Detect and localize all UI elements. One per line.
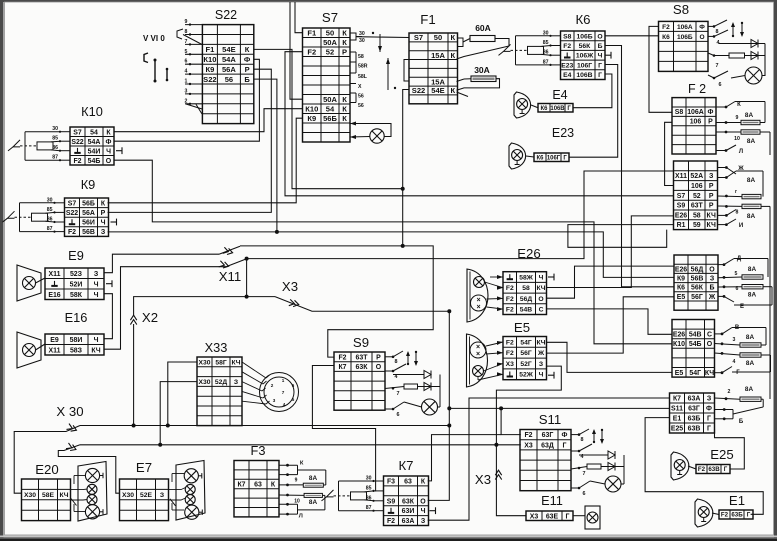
svg-text:106Г: 106Г	[547, 155, 561, 161]
fuse F3 8A-1	[303, 483, 323, 487]
fuse 60A	[470, 36, 495, 42]
svg-text:К6: К6	[575, 12, 590, 27]
svg-text:4: 4	[581, 454, 584, 460]
svg-text:86: 86	[543, 50, 549, 56]
svg-text:Х11: Х11	[49, 347, 61, 354]
svg-text:Е23: Е23	[561, 62, 573, 69]
svg-text:Р: Р	[708, 119, 713, 126]
lamp E9 symbol	[17, 265, 41, 301]
junction X11-X2	[245, 257, 249, 261]
wire E1 to F2	[645, 418, 763, 515]
svg-text:106: 106	[690, 119, 702, 126]
svg-text:К10: К10	[673, 341, 685, 348]
S7 pilot lamp	[370, 129, 384, 143]
E26 bulb wires	[485, 277, 504, 309]
switch S11	[520, 430, 571, 491]
svg-text:К6: К6	[677, 285, 685, 292]
svg-text:54: 54	[326, 105, 335, 114]
svg-text:3: 3	[733, 337, 736, 343]
svg-text:Л: Л	[739, 149, 743, 155]
svg-text:F 2: F 2	[688, 82, 706, 96]
svg-text:Р: Р	[342, 48, 347, 57]
wire S8 d2	[745, 55, 766, 57]
svg-text:4: 4	[283, 402, 286, 407]
svg-text:8: 8	[581, 437, 584, 443]
svg-text:5: 5	[185, 49, 188, 55]
lamp E16 symbol	[17, 332, 41, 368]
svg-text:F2: F2	[73, 158, 81, 165]
junction 54E riser	[401, 187, 405, 191]
svg-text:Б: Б	[598, 43, 603, 50]
wire X30 to E20	[14, 426, 80, 494]
E26 small bulb	[474, 277, 485, 288]
63 group right mech	[715, 398, 764, 419]
wire X33 58G down	[168, 362, 197, 426]
svg-text:52: 52	[693, 193, 701, 200]
svg-text:Ф: Ф	[244, 55, 251, 64]
svg-text:Е: Е	[740, 304, 744, 310]
svg-text:63К: 63К	[356, 364, 369, 371]
svg-text:Е4: Е4	[563, 72, 572, 79]
svg-text:О: О	[709, 266, 715, 273]
ground K10	[116, 147, 122, 154]
svg-text:54Е: 54Е	[431, 86, 444, 95]
wire S8 to lamp	[731, 76, 745, 79]
svg-text:Е5: Е5	[677, 294, 686, 301]
lamp E25	[671, 452, 689, 480]
svg-text:КЧ: КЧ	[536, 339, 545, 346]
svg-text:К6: К6	[537, 155, 545, 161]
svg-text:F2: F2	[506, 285, 514, 292]
svg-text:106Ж: 106Ж	[576, 53, 594, 60]
relay K7 symbol	[322, 481, 384, 511]
svg-text:Г: Г	[598, 62, 602, 69]
svg-text:З: З	[709, 173, 714, 180]
fuse F2-10 8A	[741, 130, 760, 134]
svg-text:106Б: 106Б	[677, 34, 693, 41]
lamp E5 connections	[503, 337, 547, 380]
svg-text:50: 50	[434, 33, 442, 42]
junction 54E on line A	[401, 244, 405, 248]
wire X3 diagonal	[275, 297, 449, 312]
svg-text:Е25: Е25	[710, 447, 733, 462]
svg-text:F2: F2	[338, 354, 346, 361]
svg-text:58: 58	[522, 285, 530, 292]
svg-text:56А: 56А	[82, 210, 95, 217]
E7 bulb 4	[185, 505, 199, 519]
wire S7 54 to K10	[114, 109, 303, 132]
E5 bulb wires	[478, 342, 503, 380]
56 group right mech	[718, 259, 772, 306]
svg-text:Е9: Е9	[68, 248, 84, 263]
S11 resistor	[587, 464, 601, 469]
wire F1 54E riser	[403, 90, 409, 246]
S22 pin 3 stub	[185, 93, 202, 95]
svg-text:15А: 15А	[431, 51, 445, 60]
ground E26	[548, 274, 554, 281]
svg-text:Б: Б	[710, 285, 715, 292]
wire E25 to F2	[715, 429, 745, 469]
svg-text:Г: Г	[566, 513, 570, 520]
svg-text:Х3: Х3	[530, 513, 539, 520]
wire 60A loop back	[457, 39, 510, 60]
lamp E23 bulb	[512, 150, 523, 161]
svg-text:Х33: Х33	[205, 340, 228, 355]
svg-text:30А: 30А	[474, 65, 490, 75]
svg-text:56К: 56К	[579, 43, 592, 50]
svg-text:56В: 56В	[82, 229, 95, 236]
wire E4 lamp to label	[531, 105, 538, 108]
svg-text:Е16: Е16	[48, 292, 60, 299]
svg-text:30: 30	[359, 31, 365, 37]
wire S22 54E	[254, 49, 403, 188]
svg-text:63Е: 63Е	[546, 513, 559, 520]
fuse F2 8A third	[742, 194, 761, 198]
svg-text:56А: 56А	[222, 65, 236, 74]
svg-text:8А: 8А	[746, 334, 755, 341]
ground K9	[111, 219, 117, 226]
X33 wires to round connector	[242, 362, 270, 404]
svg-text:Р: Р	[709, 183, 714, 190]
lamp E1	[695, 499, 713, 527]
svg-text:Ч: Ч	[598, 53, 603, 60]
svg-text:С: С	[707, 331, 712, 338]
svg-text:К7: К7	[338, 364, 346, 371]
wire E26 54V to F2-54	[547, 309, 673, 334]
svg-text:56В: 56В	[691, 276, 704, 283]
F1 right bracket to 60A fuse	[457, 38, 470, 47]
wire S11 pin6	[590, 481, 605, 484]
wire E5 54G to F2-54	[547, 342, 673, 372]
svg-text:50А: 50А	[323, 38, 337, 47]
svg-text:63Б: 63Б	[688, 416, 701, 423]
svg-text:3: 3	[273, 398, 276, 403]
svg-text:КЧ: КЧ	[707, 212, 716, 219]
wire S22 54A to K10	[114, 59, 259, 141]
F2 block 54 group	[672, 320, 715, 378]
svg-text:Е5: Е5	[675, 370, 684, 377]
svg-text:8: 8	[185, 29, 188, 35]
S22 pin 8 stub	[185, 34, 202, 36]
svg-text:2: 2	[271, 383, 274, 388]
svg-text:Ч: Ч	[94, 292, 99, 299]
wire K7 63A to F2	[428, 398, 670, 520]
lamp E9 connections	[45, 268, 104, 300]
svg-text:6: 6	[292, 383, 295, 388]
svg-text:54А: 54А	[222, 55, 236, 64]
wire to X2	[134, 297, 275, 316]
F2 upper right mech	[716, 102, 770, 156]
svg-text:63И: 63И	[402, 508, 415, 515]
svg-text:58L: 58L	[358, 74, 368, 80]
svg-text:7: 7	[397, 391, 400, 397]
svg-text:К: К	[300, 461, 304, 467]
svg-text:Е11: Е11	[541, 493, 563, 508]
junction X2 on X30 line	[132, 424, 136, 428]
svg-text:106В: 106В	[576, 72, 592, 79]
svg-text:S7: S7	[73, 129, 82, 136]
svg-text:54В: 54В	[689, 331, 702, 338]
wire S7 50A up	[290, 2, 303, 99]
svg-text:63Г: 63Г	[688, 406, 700, 413]
svg-text:8А: 8А	[748, 292, 757, 299]
svg-text:З: З	[101, 229, 106, 236]
svg-text:58Е: 58Е	[42, 492, 55, 499]
svg-text:87: 87	[47, 226, 53, 232]
svg-text:1: 1	[185, 79, 188, 85]
svg-text:Ч: Ч	[421, 508, 426, 515]
lamp E4 label	[538, 104, 573, 113]
svg-text:5: 5	[292, 397, 295, 402]
svg-text:К: К	[737, 102, 741, 108]
svg-text:К: К	[342, 38, 347, 47]
svg-text:60А: 60А	[475, 23, 491, 33]
E7 internal wires	[169, 474, 186, 511]
svg-text:КЧ: КЧ	[536, 285, 545, 292]
svg-text:106Б: 106Б	[576, 33, 592, 40]
svg-text:54: 54	[90, 129, 98, 136]
fuse 8A 63	[740, 397, 761, 401]
svg-text:F1: F1	[420, 12, 435, 27]
wire S7 lamp return	[350, 136, 370, 139]
svg-text:F2: F2	[307, 48, 316, 57]
svg-text:6: 6	[719, 82, 722, 88]
junction S11 feed	[499, 406, 503, 410]
svg-text:V VI 0: V VI 0	[143, 34, 165, 43]
switch S8	[659, 21, 709, 71]
junction X2-X3	[245, 295, 249, 299]
E20 internal wires	[71, 476, 88, 512]
wire K9 56V to F2-56 block	[108, 232, 675, 278]
wire X30 line right segment	[80, 425, 449, 427]
E7 bulb 2	[185, 484, 195, 494]
E7 bulb 3	[185, 495, 195, 505]
diode S9-2	[424, 383, 431, 391]
svg-text:Ф: Ф	[562, 432, 568, 439]
E7 cluster housing	[176, 461, 205, 521]
svg-text:56Б: 56Б	[82, 200, 95, 207]
F1 30A branch	[457, 79, 472, 97]
54 group right mech	[715, 328, 771, 373]
svg-text:Е9: Е9	[50, 337, 59, 344]
svg-text:КЧ: КЧ	[707, 222, 716, 229]
svg-text:63Д: 63Д	[541, 442, 554, 449]
svg-text:4: 4	[185, 69, 188, 75]
svg-text:Е25: Е25	[671, 426, 683, 433]
svg-text:Р: Р	[101, 210, 106, 217]
svg-text:И: И	[739, 223, 743, 229]
connector X11 lower	[219, 261, 229, 268]
svg-text:8А: 8А	[747, 138, 756, 145]
svg-text:Ч: Ч	[101, 220, 106, 227]
svg-text:58Г: 58Г	[215, 359, 227, 366]
svg-text:56: 56	[358, 94, 364, 100]
svg-text:56Б: 56Б	[323, 114, 337, 123]
svg-text:Х3: Х3	[282, 279, 298, 294]
svg-text:63Г: 63Г	[542, 432, 554, 439]
svg-text:КЧ: КЧ	[91, 347, 100, 354]
svg-text:Д: Д	[737, 256, 742, 262]
svg-text:6: 6	[397, 412, 400, 418]
svg-text:85: 85	[543, 40, 549, 46]
lamp E25 bulb	[674, 460, 685, 471]
svg-text:З: З	[710, 276, 715, 283]
E20 bulb 4	[85, 505, 99, 519]
fuse block F2 upper	[672, 98, 716, 154]
svg-text:9: 9	[295, 478, 298, 484]
svg-text:S22: S22	[203, 75, 216, 84]
junction S22-56	[275, 230, 279, 234]
svg-text:К: К	[450, 33, 455, 42]
E26 big bulb	[471, 295, 487, 311]
svg-text:Ж: Ж	[537, 350, 545, 357]
svg-text:К10: К10	[203, 55, 216, 64]
S22 pin 2 stub	[185, 103, 202, 105]
lamp in S9	[422, 399, 438, 415]
svg-text:F2: F2	[68, 229, 76, 236]
svg-text:О: О	[597, 33, 602, 40]
connector X3 lower	[495, 470, 501, 479]
svg-text:58Ж: 58Ж	[519, 275, 534, 282]
svg-text:59: 59	[693, 222, 701, 229]
lamp E4	[514, 92, 531, 118]
ground K7	[430, 507, 436, 514]
svg-text:63А: 63А	[402, 518, 415, 525]
E20 bulb 2	[87, 484, 97, 494]
svg-text:Х30: Х30	[198, 359, 210, 366]
E20 bulb 1	[85, 468, 99, 482]
wire E16 bulb	[36, 344, 46, 350]
svg-text:63: 63	[254, 482, 262, 489]
relay K9 symbol	[3, 203, 65, 232]
wire E23 to K6	[569, 65, 618, 158]
diode S9-1	[424, 371, 431, 379]
svg-text:58З: 58З	[70, 347, 83, 354]
svg-text:7: 7	[583, 471, 586, 477]
svg-text:×: ×	[476, 304, 480, 311]
lamp E9 bulb	[23, 277, 36, 290]
F2 lower right mech	[718, 168, 771, 400]
svg-text:86: 86	[52, 145, 58, 151]
S22 pin 6 stub	[185, 63, 202, 65]
svg-text:9: 9	[736, 115, 739, 121]
svg-text:8А: 8А	[748, 266, 757, 273]
svg-text:К9: К9	[307, 114, 316, 123]
svg-text:S22: S22	[215, 8, 237, 22]
svg-text:106А: 106А	[687, 109, 704, 116]
E20 bulb 3	[87, 495, 97, 505]
fuse 8A 56-2	[742, 285, 763, 289]
lamp E11 label	[526, 511, 573, 521]
wire E1 bulb	[712, 513, 719, 515]
svg-text:×: ×	[476, 351, 480, 358]
svg-text:54Б: 54Б	[88, 158, 101, 165]
svg-text:Ж: Ж	[708, 294, 716, 301]
connector X2	[130, 315, 136, 324]
svg-text:58И: 58И	[70, 337, 83, 344]
fuse block F2 lower	[674, 161, 718, 230]
svg-text:30: 30	[47, 197, 53, 203]
junction X3 riser	[447, 309, 451, 313]
F2 block 56 group	[674, 255, 718, 310]
svg-text:R1: R1	[677, 222, 686, 229]
wire E25 bulb	[688, 466, 696, 469]
lamp E5 housing	[467, 334, 488, 387]
wire S7 56B to K9	[108, 118, 303, 203]
fuse F3 8A-2	[304, 493, 322, 497]
junction riser-S11 feed	[447, 406, 451, 410]
lamp E16 bulb	[23, 344, 36, 357]
svg-text:З: З	[539, 361, 543, 368]
lamp E4 bulb	[517, 99, 528, 110]
lamp E1 bulb	[698, 507, 709, 518]
svg-text:63Т: 63Т	[356, 354, 369, 361]
wire X11 to X2 riser	[246, 259, 248, 297]
F1 left bracket	[404, 60, 409, 82]
svg-text:Х3: Х3	[475, 472, 491, 487]
wire S11 F feed	[501, 408, 521, 434]
fuse 30A	[471, 76, 496, 82]
S22 pin 1 stub	[185, 83, 202, 85]
svg-text:×: ×	[476, 297, 480, 304]
svg-text:85: 85	[366, 485, 372, 491]
svg-text:Ч: Ч	[539, 275, 544, 282]
svg-text:63А: 63А	[688, 396, 701, 403]
svg-text:7: 7	[716, 63, 719, 69]
svg-text:F2: F2	[506, 296, 514, 303]
S11 mechanism	[571, 429, 624, 488]
svg-text:Ф: Ф	[708, 109, 714, 116]
svg-text:F2: F2	[563, 43, 571, 50]
switch S7	[303, 28, 351, 142]
svg-text:F1: F1	[205, 45, 214, 54]
relay K10	[70, 127, 114, 165]
connector X33	[197, 357, 242, 426]
svg-text:56Д: 56Д	[520, 296, 533, 303]
svg-text:К9: К9	[677, 276, 685, 283]
wire X3 to E11	[496, 445, 526, 516]
svg-text:8: 8	[716, 29, 719, 35]
svg-text:К: К	[342, 105, 347, 114]
svg-text:54Г: 54Г	[520, 339, 532, 346]
wire X30 to E7	[58, 445, 119, 493]
svg-text:54А: 54А	[88, 139, 101, 146]
junction X3 node	[494, 443, 498, 447]
lamp E23	[509, 143, 526, 169]
svg-text:52З: 52З	[70, 271, 83, 278]
svg-text:Л: Л	[299, 514, 303, 520]
fuse 8A 56-1	[742, 275, 763, 279]
svg-text:Р: Р	[245, 65, 250, 74]
svg-text:F2: F2	[721, 512, 729, 519]
svg-text:З: З	[234, 379, 238, 386]
diode S8-2	[751, 52, 758, 60]
svg-text:Х30: Х30	[24, 492, 36, 499]
connector X11 upper	[223, 247, 233, 254]
svg-text:г: г	[735, 189, 737, 195]
ground K6	[605, 52, 611, 59]
wire S22 56 down	[254, 79, 277, 232]
svg-text:F1: F1	[307, 29, 316, 38]
svg-text:S22: S22	[71, 139, 83, 146]
svg-text:56К: 56К	[691, 285, 704, 292]
svg-text:Е16: Е16	[65, 310, 88, 325]
svg-text:З: З	[707, 396, 712, 403]
svg-text:О: О	[420, 498, 426, 505]
svg-text:54И: 54И	[88, 148, 101, 155]
lamp E25 label	[696, 465, 730, 474]
lamp E7 connections	[120, 479, 169, 521]
